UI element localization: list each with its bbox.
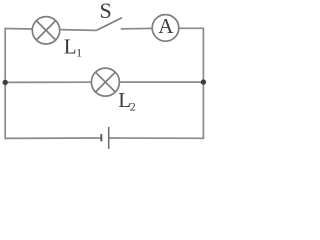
svg-text:S: S — [100, 0, 112, 23]
svg-text:L: L — [64, 35, 77, 59]
svg-text:1: 1 — [76, 46, 82, 60]
svg-text:A: A — [158, 14, 174, 38]
svg-text:2: 2 — [130, 99, 136, 113]
